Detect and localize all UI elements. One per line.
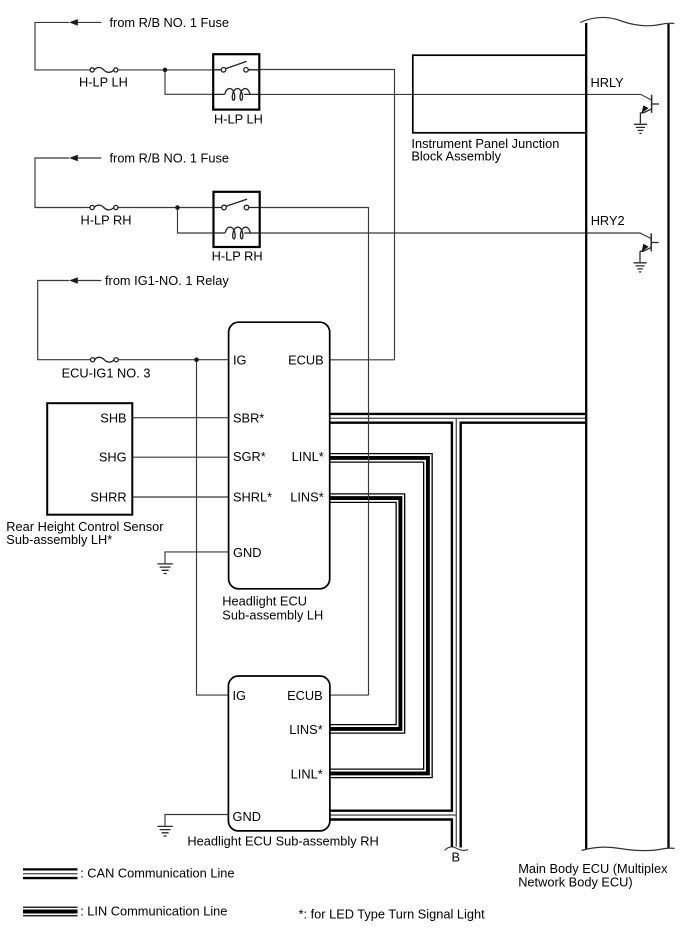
svg-text:H-LP RH: H-LP RH	[212, 249, 263, 264]
CAN RH horizontal grey center line	[330, 814, 456, 816]
arrowhead: from R/B NO.1 Fuse (second)	[69, 155, 78, 162]
svg-text:LINS*: LINS*	[290, 489, 323, 504]
svg-text:*: for LED Type Turn Signal Li: *: for LED Type Turn Signal Light	[299, 906, 486, 921]
Headlight ECU Sub-assembly LH box	[229, 322, 330, 589]
Main Body ECU right edge	[667, 24, 669, 849]
relay H-LP RH box	[214, 192, 260, 247]
wire: RH relay switch output right then down to ECUB RH	[260, 208, 369, 696]
svg-text:SHB: SHB	[100, 410, 126, 425]
transistor HRLY in main body ECU	[651, 95, 653, 113]
svg-text:HRLY: HRLY	[591, 75, 625, 90]
wire: RH relay coil output to HRY2 transistor	[260, 233, 652, 239]
Rear Height Control Sensor Sub-assembly LH box	[47, 403, 132, 515]
CAN LH horizontal grey center line	[330, 417, 586, 419]
Instrument Panel Junction Block Assembly box	[413, 55, 586, 133]
svg-text:ECUB: ECUB	[288, 353, 324, 368]
svg-text:SHG: SHG	[99, 450, 127, 465]
svg-text:Sub-assembly LH*: Sub-assembly LH*	[6, 532, 112, 547]
svg-text:H-LP LH: H-LP LH	[214, 112, 263, 127]
wire: SHG to SGR*	[132, 456, 228, 458]
svg-text:B: B	[452, 850, 461, 865]
relay LH coil	[213, 93, 259, 95]
ground for GND LH	[157, 564, 172, 574]
legend LIN Communication Line sample	[23, 907, 78, 917]
wire: junction 2 branch down to RH relay coil	[178, 208, 214, 234]
LIN LINS* white channel	[330, 498, 401, 729]
arrowhead: from R/B NO.1 Fuse (top)	[69, 19, 78, 26]
node junction dot at H-LP LH fuse/relay	[163, 68, 168, 73]
wire: IG branch down to RH box IG pin	[197, 360, 229, 695]
Main Body ECU bottom break wavy line	[582, 847, 675, 850]
emitter arrowhead HRY2	[642, 244, 649, 252]
svg-text:H-LP LH: H-LP LH	[79, 75, 128, 90]
svg-text:Headlight ECU: Headlight ECU	[222, 594, 307, 609]
svg-text:GND: GND	[233, 809, 261, 824]
svg-text:H-LP RH: H-LP RH	[81, 212, 132, 227]
wire: LH relay switch output right then down to ECUB LH	[259, 70, 394, 360]
ground for HRY2	[634, 263, 647, 272]
wire: SHB to SBR*	[132, 417, 228, 419]
wire: H-LP RH fuse to junction to relay switch	[118, 207, 214, 209]
wire: from IG1 relay arrow drop to ECU-IG1 fuse	[38, 281, 102, 360]
LIN LINS* black core	[330, 498, 401, 729]
svg-text:from R/B NO. 1 Fuse: from R/B NO. 1 Fuse	[110, 15, 229, 30]
fuse H-LP LH	[90, 68, 94, 72]
svg-text:LINL*: LINL*	[291, 766, 323, 781]
fuse H-LP RH	[90, 205, 94, 209]
svg-text:Headlight ECU Sub-assembly RH: Headlight ECU Sub-assembly RH	[187, 834, 378, 849]
LIN line LINL* U-path black casing	[330, 458, 428, 774]
svg-text:SBR*: SBR*	[233, 411, 264, 426]
wire: ECUB LH pin to vertical	[330, 359, 395, 361]
svg-text:Network Body ECU): Network Body ECU)	[518, 874, 633, 889]
transistor HRY2 in main body ECU	[650, 233, 652, 251]
CAN communication line horizontal RH (to trunk) black casing	[330, 809, 456, 820]
CAN trunk white channel	[453, 418, 459, 847]
svg-text:SHRR: SHRR	[90, 490, 126, 505]
wire: H-LP LH fuse to junction to relay switch	[118, 69, 213, 71]
wire: GND LH to ground	[165, 552, 229, 564]
Main Body ECU top break wavy line	[580, 17, 674, 25]
svg-text:: LIN Communication Line: : LIN Communication Line	[80, 904, 227, 919]
fuse ECU-IG1 NO. 3	[91, 358, 95, 362]
node junction dot at ECU-IG1 branch	[194, 357, 199, 362]
svg-text:LINL*: LINL*	[292, 449, 324, 464]
svg-text:LINS*: LINS*	[289, 722, 322, 737]
Headlight ECU Sub-assembly RH box	[228, 676, 330, 831]
ground for GND RH	[157, 826, 172, 836]
emitter arrowhead HRLY	[642, 105, 649, 113]
CAN trunk grey center line	[455, 418, 457, 846]
legend CAN Communication Line sample	[23, 868, 78, 879]
wire: from R/B fuse arrow drop 2 to H-LP RH fuse	[35, 158, 101, 208]
svg-text:Sub-assembly LH: Sub-assembly LH	[222, 608, 323, 623]
arrowhead: from IG1-NO.1 Relay	[69, 277, 78, 284]
wire: LH relay coil output through junction block to HRLY transistor	[259, 94, 651, 100]
svg-text:from R/B NO. 1 Fuse: from R/B NO. 1 Fuse	[110, 150, 229, 165]
relay H-LP LH box	[213, 54, 259, 109]
svg-text:ECU-IG1 NO. 3: ECU-IG1 NO. 3	[62, 366, 151, 381]
LIN line LINS* U-path black casing	[330, 498, 401, 729]
break squiggle at trunk end node B	[445, 847, 469, 851]
svg-text:HRY2: HRY2	[591, 213, 625, 228]
node junction dot at H-LP RH fuse/relay	[175, 205, 180, 210]
wire: from R/B fuse arrow drop to H-LP LH fuse	[35, 22, 101, 70]
LIN LINL* white channel	[330, 458, 428, 774]
svg-text:IG: IG	[233, 688, 247, 703]
svg-text:SGR*: SGR*	[233, 449, 266, 464]
CAN RH horizontal white channel	[330, 812, 456, 818]
Main Body ECU left edge	[585, 23, 587, 850]
CAN communication line trunk vertical to B, black casing	[451, 418, 462, 847]
svg-text:SHRL*: SHRL*	[233, 489, 272, 504]
relay RH switch contacts and blade	[222, 205, 227, 210]
ground for HRLY	[634, 124, 647, 133]
CAN communication line horizontal LH (SBR level) black casing	[330, 413, 586, 424]
wire: junction branch down to relay coil	[165, 70, 213, 94]
wire: GND RH to ground	[165, 815, 228, 826]
svg-text:IG: IG	[233, 353, 247, 368]
CAN LH horizontal white channel	[330, 415, 586, 421]
svg-text:: CAN Communication Line: : CAN Communication Line	[80, 865, 234, 880]
svg-text:GND: GND	[233, 545, 261, 560]
svg-text:ECUB: ECUB	[287, 688, 323, 703]
relay LH switch contacts and blade	[221, 68, 226, 73]
svg-text:Block Assembly: Block Assembly	[411, 149, 501, 164]
wire: ECUB RH pin to vertical	[330, 694, 369, 696]
LIN LINL* black core	[330, 458, 428, 774]
svg-text:from IG1-NO. 1 Relay: from IG1-NO. 1 Relay	[105, 273, 229, 288]
wire: ECU-IG1 fuse to IG junction to IG pin LH	[118, 359, 228, 361]
wire: SHRR to SHRL*	[132, 496, 228, 498]
relay RH coil	[214, 232, 260, 234]
